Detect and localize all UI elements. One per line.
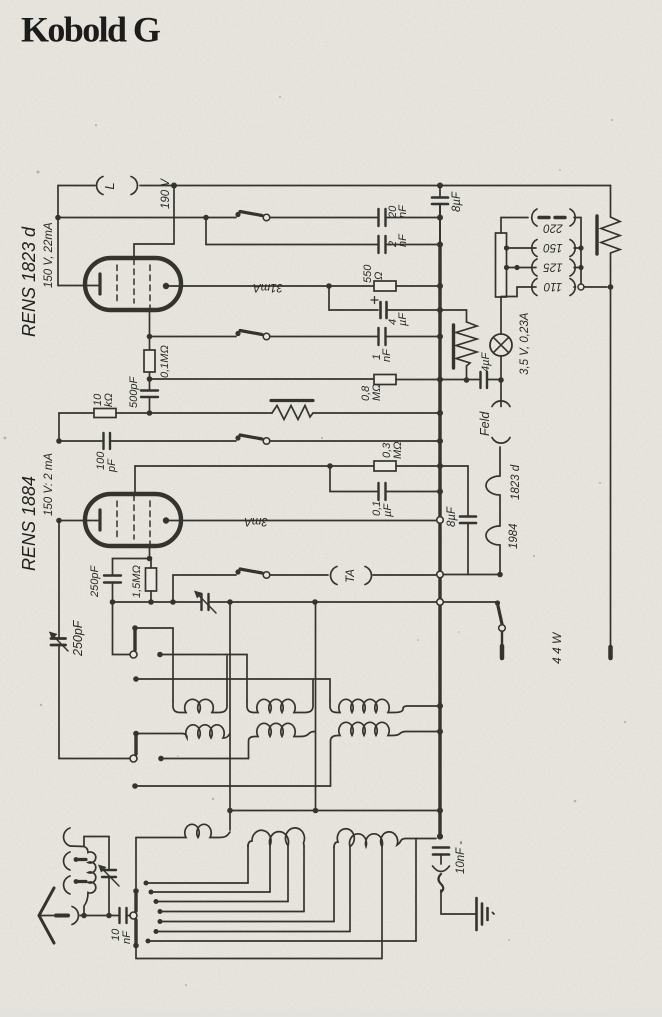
- wire rail7 right: [396, 379, 440, 381]
- wire rail9 right: [270, 440, 440, 442]
- wire Feld top lead: [500, 380, 502, 407]
- wire rail 811: [230, 810, 440, 812]
- coil L2b row2: [249, 723, 316, 758]
- svg-text:110: 110: [543, 280, 562, 292]
- fan contact 5: [158, 919, 163, 924]
- ground bar 3: [486, 908, 489, 920]
- node rail9 left bus: [56, 438, 62, 444]
- ground bar 2: [481, 904, 484, 925]
- wire TA rail mid: [270, 574, 328, 576]
- socket 220 left arc: [532, 209, 537, 226]
- left bus upper segment: [57, 186, 59, 286]
- svg-text:4µF: 4µF: [480, 352, 492, 372]
- antenna plug bar: [56, 914, 68, 918]
- capacitor 4uF electrolytic: [381, 302, 387, 318]
- label 0,1uF: [371, 501, 394, 517]
- lamp 3,5V 0,23A: [490, 297, 512, 380]
- resistor shunt zigzag: [456, 322, 477, 366]
- wire rail10 grid leak: [135, 465, 374, 467]
- tube U1 RENS1823d envelope: [85, 258, 181, 310]
- node antenna jack: [81, 913, 87, 919]
- ring rail11 bus: [437, 517, 444, 524]
- node rail10 bus: [437, 463, 443, 469]
- svg-text:1,5MΩ: 1,5MΩ: [131, 565, 143, 598]
- wire heater bypass bottom: [467, 523, 469, 575]
- resistor 10 kOhm: [94, 409, 116, 418]
- node heater rail right: [497, 572, 503, 578]
- tube U2 cathode lead: [59, 520, 98, 522]
- wire coilA left down to wave3: [135, 838, 137, 891]
- TA jack left arc: [331, 567, 337, 585]
- wire 0,1uF right: [387, 491, 440, 493]
- label 20nF: [387, 204, 409, 219]
- trimmer capacitor padder: [194, 591, 216, 614]
- wire 10nF down: [440, 855, 442, 865]
- plug A3: [74, 879, 86, 884]
- wire antenna top rail: [84, 837, 109, 847]
- svg-text:MΩ: MΩ: [371, 383, 383, 401]
- wire 190V to grid of U1: [134, 186, 174, 260]
- node 0,1uF bus: [437, 489, 443, 495]
- left bus lower segment bottom: [59, 645, 129, 759]
- barretter bar: [595, 216, 598, 254]
- Feld jack upper arc: [492, 401, 510, 407]
- contact wave1 c: [133, 676, 139, 682]
- resistor 1,5 MOhm: [146, 559, 157, 603]
- coil L2a row1: [247, 680, 313, 713]
- antenna trimmer plates: [102, 870, 116, 877]
- node mains lead 110: [608, 284, 614, 290]
- capacitor 250pF grid: [104, 576, 121, 583]
- node coil3 row1 bus: [437, 703, 443, 709]
- capacitor 500pF: [141, 391, 158, 398]
- svg-text:500pF: 500pF: [128, 376, 140, 408]
- coil B tap1: [269, 846, 271, 892]
- tube U1 screen lead down: [149, 309, 151, 337]
- svg-text:31mA: 31mA: [253, 281, 283, 293]
- wire selector right 150 stub: [574, 247, 581, 249]
- node rail7 left (under 0,1M): [147, 376, 153, 382]
- wire rail6 left: [150, 336, 237, 338]
- fan contact 1: [144, 881, 149, 886]
- svg-text:8µF: 8µF: [451, 191, 463, 212]
- wire selector box top: [501, 218, 528, 234]
- node coil3 row2 bus: [437, 729, 443, 735]
- svg-text:125: 125: [543, 261, 563, 273]
- node rail14 250pF: [110, 599, 116, 605]
- node rail2 drop: [203, 215, 209, 221]
- TA jack right arc: [365, 567, 371, 585]
- resistor shunt bar: [452, 325, 455, 368]
- wire earth lead: [441, 890, 475, 914]
- wire lamp rail: [440, 379, 479, 381]
- wire drop to 4uF electrolytic: [329, 286, 378, 310]
- resistor 0,8 MOhm: [374, 375, 396, 385]
- label 100pF: [95, 451, 118, 473]
- coil B left lead down: [247, 845, 249, 883]
- wire tap 125: [507, 267, 537, 269]
- socket A3 arc: [64, 876, 70, 894]
- wire trimmer drop: [108, 837, 110, 870]
- wire zigzag bottom: [466, 366, 468, 380]
- svg-text:RENS 1823 d: RENS 1823 d: [19, 226, 39, 337]
- svg-text:MΩ: MΩ: [392, 441, 404, 459]
- coil C left lead down: [333, 847, 335, 922]
- ring rail14 bus: [437, 599, 444, 606]
- bus bottom node: [437, 834, 443, 840]
- svg-text:1984: 1984: [508, 523, 520, 549]
- node rail6 left: [147, 334, 153, 340]
- wire rail2 mid: [270, 217, 377, 219]
- wire zigzag top feed: [440, 310, 467, 322]
- node tap 125: [504, 265, 509, 270]
- svg-text:190 V: 190 V: [160, 178, 172, 209]
- switch S2 rail6: [235, 331, 269, 340]
- node rail4 / 4uF drop: [326, 283, 332, 289]
- capacitor 8uF (bus top): [432, 198, 448, 205]
- resistor 0,3 MOhm: [374, 461, 396, 471]
- node rail809 x230: [227, 808, 233, 814]
- svg-text:µF: µF: [397, 312, 409, 326]
- svg-text:TA: TA: [345, 569, 357, 583]
- socket 110 left arc: [532, 279, 537, 296]
- node rail14 x230: [227, 599, 233, 605]
- plug A2: [74, 857, 86, 862]
- wire drop to 0,1uF: [330, 466, 377, 492]
- label 0,8 MOhm: [360, 383, 383, 401]
- wire bus top segment: [439, 186, 441, 198]
- node rail8 / 500pF: [147, 410, 153, 416]
- wire selector right 125 stub: [574, 267, 581, 269]
- ring wave switch 3: [130, 912, 137, 919]
- coil A antenna row3: [136, 824, 230, 837]
- wire contact c to coil3 row1: [136, 679, 330, 701]
- antenna jack arc: [72, 907, 78, 925]
- wire right edge drop to barretter: [610, 186, 612, 218]
- contact wave2 c: [132, 783, 138, 789]
- wire rail3 right: [387, 244, 440, 246]
- svg-text:4 4 W: 4 4 W: [550, 631, 564, 664]
- node lamp rail: [498, 377, 504, 383]
- wire rail4 right: [396, 285, 440, 287]
- ground bar 1: [475, 898, 478, 930]
- label 10nF antenna: [110, 928, 133, 944]
- left bus mid segment: [58, 413, 60, 441]
- wire rail4 anode: [166, 285, 374, 287]
- coil B loops: [248, 828, 304, 847]
- wire rail9 left: [59, 440, 102, 442]
- coil C tap1: [349, 847, 351, 932]
- tube U2 RENS1884 envelope: [85, 494, 181, 546]
- wire contact a to coil1 row1: [135, 628, 173, 701]
- wire tap 150: [507, 247, 537, 249]
- tube U2 screen lead down: [149, 546, 151, 559]
- coil L1a row1: [173, 656, 227, 713]
- switch S5 mains: [495, 600, 505, 658]
- tube U1 cathode bar: [98, 274, 101, 294]
- wire rail8 right: [313, 412, 440, 414]
- potentiometer zigzag: [272, 406, 313, 420]
- fan wire 7: [148, 940, 416, 942]
- node rail3 bus: [437, 242, 443, 248]
- node tube U2 cathode bus: [56, 518, 62, 524]
- wire TA rail left: [173, 574, 236, 576]
- wire rail10 right: [396, 465, 440, 467]
- wire selector right vertical: [574, 218, 581, 288]
- fan contact 4: [158, 909, 163, 914]
- label 4uF electrolytic: [387, 312, 409, 326]
- node rail6 bus: [437, 334, 443, 340]
- barretter zigzag: [601, 217, 620, 253]
- fan wire 4: [160, 911, 304, 913]
- wire rail9 mid: [111, 440, 236, 442]
- svg-text:nF: nF: [397, 204, 409, 218]
- wire grid2 drop: [134, 466, 136, 495]
- coil C tap3: [381, 847, 383, 959]
- fan contact 3: [154, 899, 159, 904]
- label 550 Ohm: [362, 264, 385, 283]
- vertical x230: [229, 602, 231, 830]
- wiper wave switch 2: [134, 736, 137, 754]
- antenna symbol: [39, 888, 54, 943]
- wire rail6 right: [387, 336, 440, 338]
- socket A2 arc: [64, 852, 70, 870]
- svg-text:150 V: 2 mA: 150 V: 2 mA: [43, 453, 55, 516]
- wire TA feed up: [172, 575, 174, 602]
- fan wire 2: [151, 891, 270, 893]
- node rail14 x173: [170, 599, 176, 605]
- antenna trimmer arrow: [98, 865, 119, 887]
- svg-text:250pF: 250pF: [89, 565, 101, 598]
- node rail7 bus: [437, 377, 443, 383]
- svg-text:150 V, 22mA: 150 V, 22mA: [43, 222, 55, 288]
- wire antenna rail nodes: [106, 913, 112, 919]
- plus sign 4uF: [371, 297, 378, 304]
- svg-text:8µF: 8µF: [446, 506, 458, 527]
- contact wave3 top: [133, 888, 139, 894]
- svg-text:Kobold G: Kobold G: [21, 10, 161, 50]
- capacitor 1nF: [379, 328, 386, 345]
- node rail2 left bus: [55, 215, 61, 221]
- svg-text:nF: nF: [121, 930, 133, 944]
- wire rail14 right to mains switch: [210, 601, 496, 603]
- capacitor 0,1uF: [379, 483, 386, 500]
- ring wave switch 2: [130, 755, 137, 762]
- svg-text:220: 220: [543, 222, 564, 234]
- wire rail7: [150, 378, 375, 380]
- wire 4uF to bus: [388, 309, 440, 311]
- node selector right 125: [578, 265, 583, 270]
- wire contact to coil2 row2 drop: [161, 758, 249, 760]
- wire contact b to coil2 row1: [160, 655, 247, 702]
- node grid leak top: [147, 556, 153, 562]
- fan wire 1: [146, 882, 248, 884]
- node top rail / bus: [437, 183, 443, 189]
- wire rail2 190V left: [58, 217, 236, 219]
- svg-text:3,5 V, 0,23A: 3,5 V, 0,23A: [519, 312, 531, 375]
- tube U1 anode node: [163, 283, 169, 289]
- node tap 125b: [514, 265, 519, 270]
- contact wave1 b: [157, 652, 163, 658]
- fan contact 6: [154, 929, 159, 934]
- svg-text:pF: pF: [106, 458, 118, 473]
- heater 1823d bump: [486, 447, 500, 526]
- wire rail 786: [135, 785, 331, 787]
- node rail14 1,5M: [148, 599, 154, 605]
- heater 1984 bump: [486, 526, 500, 575]
- wire node to 250pF top: [113, 559, 150, 576]
- node rail4 bus: [437, 283, 443, 289]
- tube U1 cathode lead: [58, 285, 98, 287]
- node top rail / 190V: [171, 183, 177, 189]
- tube U2 grid dashes: [117, 495, 150, 545]
- wire rail11 anode U2: [166, 520, 436, 522]
- wire contact to coil1 row2: [136, 733, 182, 735]
- node rail809 bus: [437, 808, 443, 814]
- svg-text:Ω: Ω: [373, 272, 385, 280]
- node rail8 bus: [437, 410, 443, 416]
- capacitor 10nF output: [433, 848, 449, 855]
- wire socket A1 to rail: [70, 845, 84, 848]
- wire rail2 right: [387, 217, 440, 219]
- label 0,3 MOhm: [381, 441, 404, 459]
- resistor 550 Ohm: [374, 281, 396, 291]
- node selector right 150: [578, 245, 583, 250]
- svg-text:250pF: 250pF: [71, 619, 85, 657]
- node coilC bus: [437, 834, 443, 840]
- fan contact 2: [149, 890, 154, 895]
- wiper wave3 upper: [134, 894, 137, 912]
- switch S1 rail2: [235, 212, 269, 221]
- wire 10nF to ring: [128, 915, 130, 917]
- wire top rail right: [140, 185, 611, 187]
- wire rail6 mid: [270, 336, 377, 338]
- coil L3b row2: [331, 722, 438, 786]
- svg-text:nF: nF: [381, 348, 393, 362]
- label 1nF: [371, 348, 393, 362]
- coil B tap3: [303, 846, 305, 912]
- svg-text:0,1MΩ: 0,1MΩ: [159, 345, 171, 378]
- wire TA rail right: [373, 574, 436, 576]
- capacitor 2nF: [379, 236, 386, 253]
- svg-text:µF: µF: [382, 503, 394, 517]
- contact wave2 b: [158, 756, 164, 762]
- switch S3 rail9: [235, 435, 269, 444]
- socket 220 right arc: [570, 209, 575, 226]
- wire heater bypass top: [440, 466, 468, 516]
- potentiometer bar: [271, 399, 313, 402]
- switch S4 TA: [235, 569, 269, 578]
- wire antenna to 10nF: [80, 915, 118, 917]
- tube U1 grid dashes: [117, 259, 150, 309]
- left bus lower segment top: [58, 521, 60, 639]
- contact wave3 bottom: [133, 943, 139, 949]
- contact wave2 a: [133, 731, 139, 737]
- node rail14 x315: [312, 599, 318, 605]
- terminal mains right: [608, 647, 613, 658]
- capacitor 10nF antenna: [120, 908, 127, 923]
- coil B tap2: [287, 846, 289, 902]
- wire heater rail: [443, 574, 500, 576]
- fan wire 5: [160, 921, 334, 923]
- node tap 150: [504, 245, 509, 250]
- wire mains right lead: [610, 287, 612, 647]
- vertical x315: [315, 602, 317, 811]
- tube U2 anode node: [163, 517, 169, 523]
- fan wire 3: [156, 901, 288, 903]
- wire barretter bottom: [610, 253, 612, 287]
- ground mark: [493, 913, 495, 915]
- capacitor 4uF lamp: [481, 372, 488, 388]
- coil C tap2: [415, 839, 417, 942]
- resistor 0,1 MOhm: [144, 337, 155, 391]
- socket 150 left arc: [532, 240, 537, 257]
- tuning capacitor arrow: [49, 632, 68, 652]
- fan contact 7: [146, 939, 151, 944]
- socket 150 right arc: [570, 240, 575, 257]
- wire rail8 mid: [116, 412, 272, 414]
- wire drop rail2-rail3: [205, 218, 207, 245]
- wire 4uF to lamp lead: [488, 379, 501, 381]
- coil L3a row1: [330, 699, 437, 712]
- node rail9 bus: [437, 438, 443, 444]
- node rail2 bus: [437, 215, 443, 221]
- socket 125 left arc: [532, 259, 537, 276]
- wire 110 to mains lead: [584, 286, 607, 288]
- ring wave switch 1: [130, 651, 137, 658]
- fan wire 8: [136, 946, 382, 959]
- tuning capacitor 250pF plates: [51, 639, 66, 646]
- svg-text:kΩ: kΩ: [103, 393, 115, 407]
- svg-text:150: 150: [543, 241, 563, 253]
- node rail809 x315: [313, 808, 319, 814]
- wire 110 to lamp node: [501, 287, 517, 297]
- wire tap 110: [517, 286, 536, 288]
- wire wave switch 1 feed: [113, 602, 130, 655]
- wire 500pF to rail8: [149, 397, 151, 413]
- svg-text:1823 d: 1823 d: [510, 464, 522, 500]
- selector resistor box: [496, 233, 507, 297]
- fan wire 6: [156, 931, 350, 933]
- wire top rail left: [58, 185, 95, 187]
- node rail10 / 0,1uF drop: [327, 463, 333, 469]
- contact wave1 a: [132, 625, 138, 631]
- capacitor 100pF: [104, 433, 111, 449]
- wire 250pF bottom: [112, 583, 114, 603]
- coil L1b row2: [182, 725, 230, 738]
- svg-text:L: L: [102, 182, 117, 189]
- svg-text:10nF -: 10nF -: [455, 841, 467, 874]
- wire rail14 left: [113, 601, 201, 603]
- wiper wave3 lower: [134, 920, 137, 943]
- antenna coil vertical: [84, 847, 96, 916]
- bus vertical thin part: [439, 204, 441, 244]
- capacitor 20nF: [379, 209, 386, 226]
- ring TA bus: [437, 571, 444, 578]
- wire 110 stub: [574, 286, 576, 288]
- earth jack arc: [433, 866, 450, 872]
- socket A1 arc: [64, 828, 70, 846]
- capacitor 8uF heater: [460, 517, 476, 524]
- wiper wave switch 1: [133, 631, 136, 651]
- socket 125 right arc: [570, 259, 575, 276]
- speaker jack L right arc: [131, 177, 137, 195]
- speaker jack L left arc: [97, 177, 103, 195]
- wire rail8 left: [59, 412, 94, 414]
- tube U2 cathode bar: [98, 510, 101, 530]
- wire trimmer to rail: [108, 877, 110, 916]
- socket 110 right arc: [570, 279, 575, 296]
